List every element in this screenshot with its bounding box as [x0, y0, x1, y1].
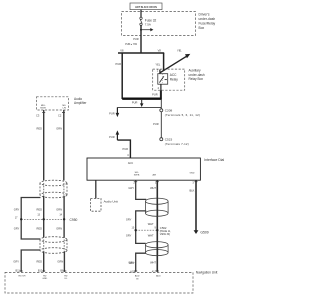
svg-text:GRY: GRY: [126, 217, 132, 221]
svg-text:V8: V8: [158, 49, 162, 53]
svg-text:(Terminals 5, 6, 11, 12): (Terminals 5, 6, 11, 12): [165, 113, 200, 117]
svg-text:GRY: GRY: [14, 207, 20, 211]
svg-text:WHT: WHT: [150, 186, 156, 190]
svg-text:GRN: GRN: [56, 126, 62, 130]
svg-text:C950: C950: [70, 218, 78, 222]
svg-text:Interface Dial: Interface Dial: [204, 158, 224, 162]
svg-text:Navigation Unit: Navigation Unit: [196, 270, 218, 274]
wire GRY shield lower segment: [136, 253, 146, 272]
navigation unit box (dashed): [5, 272, 193, 293]
nav pin B11: [16, 270, 26, 278]
svg-text:Driver's: Driver's: [199, 13, 210, 17]
label: Audio Amplifier: [74, 97, 87, 105]
connector C562 line: [135, 229, 159, 231]
hot-in-acc box: [130, 3, 162, 10]
shield cylinder right 2: [146, 242, 169, 256]
svg-text:GND: GND: [42, 278, 47, 280]
svg-text:B11: B11: [16, 270, 21, 273]
label C562: [160, 226, 171, 236]
svg-text:HOT IN ACC OR ON: HOT IN ACC OR ON: [135, 6, 157, 9]
wire RED mid: [43, 196, 45, 240]
wire GRY shield upper (interface pin2 to cyl top): [136, 180, 147, 199]
svg-text:SW/B: SW/B: [40, 108, 46, 110]
svg-text:SW/B: SW/B: [134, 175, 140, 177]
svg-text:GRN: GRN: [57, 260, 63, 264]
wire GRN lower: [63, 252, 65, 272]
connector stub arrow down: [140, 100, 144, 107]
wire GRN mid: [63, 196, 65, 240]
amp pin ticks: [42, 111, 65, 113]
svg-text:PUR: PUR: [116, 62, 122, 66]
label: Auxiliary Under-dash Relay Box: [189, 69, 205, 82]
svg-text:C3: C3: [36, 114, 40, 118]
ground G509: [194, 230, 209, 234]
svg-text:Y81: Y81: [177, 49, 182, 53]
wire right branch YEL down: [163, 53, 165, 71]
svg-text:AM: AM: [153, 174, 156, 177]
svg-text:YEL: YEL: [155, 62, 160, 66]
svg-text:PUR: PUR: [109, 112, 115, 116]
svg-text:GRY: GRY: [14, 227, 20, 231]
svg-text:GRN: GRN: [56, 227, 62, 231]
svg-text:RD: RD: [64, 275, 68, 277]
svg-text:WHT: WHT: [148, 222, 154, 226]
connector C523 reference: [160, 138, 163, 141]
svg-text:GRY: GRY: [126, 233, 132, 237]
amp pin label left: [40, 105, 46, 110]
junction wire horizontal: [118, 52, 164, 54]
svg-text:GRY: GRY: [13, 260, 19, 264]
svg-text:Box: Box: [199, 26, 205, 30]
svg-text:GRY: GRY: [129, 261, 135, 265]
wire thick feed: [122, 97, 161, 99]
relay U-ACC: [158, 74, 168, 85]
svg-text:PUR: PUR: [123, 147, 129, 151]
pin tick 3: [195, 181, 198, 183]
connector C208 reference rail: [160, 100, 163, 112]
wire thin rail horizontal: [117, 106, 161, 108]
svg-text:PUR: PUR: [132, 101, 138, 105]
wire to audio unit: [95, 180, 97, 198]
wire GRY shield bracket: [21, 198, 40, 240]
auxiliary under-dash relay box (dashed): [153, 69, 185, 90]
wire GRY shield to nav: [21, 250, 40, 272]
svg-text:Amplifier: Amplifier: [74, 101, 87, 105]
svg-text:A17: A17: [152, 270, 157, 273]
label C523: [165, 138, 189, 146]
svg-text:RED: RED: [37, 126, 43, 130]
nav pin A17: [152, 270, 161, 277]
svg-text:WHT: WHT: [148, 233, 154, 237]
svg-text:PUR: PUR: [109, 135, 115, 139]
svg-text:PUR: PUR: [153, 122, 159, 126]
svg-text:Audio Unit: Audio Unit: [104, 199, 118, 203]
audio amplifier box (dashed): [37, 97, 69, 110]
pin tick 2: [134, 181, 137, 183]
wire left branch PUR down: [121, 53, 123, 99]
wire relay out PUR: [160, 90, 162, 99]
wire from hot box to fuse: [140, 10, 142, 18]
interface dial unit box: [87, 158, 200, 180]
wire BLK to ground: [195, 180, 197, 231]
svg-text:C2: C2: [58, 114, 62, 118]
wire RED from amp: [43, 110, 45, 181]
svg-text:7.5A: 7.5A: [145, 23, 151, 27]
nav pin B6: [60, 270, 68, 281]
shield cylinder left 2 (dashed): [40, 237, 67, 254]
shield cylinder left 1 (dashed): [40, 180, 67, 198]
svg-text:RED: RED: [37, 207, 43, 211]
nav pin B12: [38, 270, 48, 281]
wire rail between circles PUR: [160, 112, 162, 138]
label: ACC Relay: [170, 73, 179, 81]
svg-text:RED: RED: [37, 227, 43, 231]
connector C950 line: [20, 218, 65, 220]
connector half arrow down at rail left: [116, 107, 120, 117]
svg-text:A19: A19: [130, 270, 135, 273]
wire fuse to junction (PUR): [140, 25, 142, 53]
driver's under-dash fuse/relay box (dashed): [122, 12, 196, 36]
wire WHT main (interface pin1 down): [156, 180, 158, 272]
svg-text:Relay: Relay: [170, 77, 179, 81]
label: Fuse 32 7.5A: [145, 18, 157, 26]
svg-text:AUD: AUD: [135, 275, 140, 278]
svg-text:AUD: AUD: [156, 275, 161, 278]
svg-text:RED: RED: [37, 260, 43, 264]
svg-text:BLK: BLK: [189, 189, 194, 193]
svg-text:L/N: L/N: [63, 108, 67, 110]
wire diagonal to arrow Y81: [160, 54, 190, 73]
svg-text:VIEW 30): VIEW 30): [160, 233, 170, 236]
svg-text:B12: B12: [38, 270, 43, 273]
wire RED lower: [43, 252, 45, 272]
svg-text:GRN: GRN: [56, 207, 62, 211]
label: Driver's under-dash Fuse/Relay Box: [199, 13, 216, 31]
svg-text:(Terminals 7-12): (Terminals 7-12): [165, 142, 189, 146]
wire GRY shield mid segment: [136, 211, 147, 244]
svg-text:SIG: SIG: [135, 172, 139, 174]
svg-text:PUR ▸ Y82: PUR ▸ Y82: [125, 43, 137, 46]
svg-text:GND: GND: [190, 173, 195, 175]
svg-text:RD: RD: [43, 275, 47, 277]
relay pin 1: [159, 70, 161, 74]
relay pin 4: [160, 84, 162, 90]
svg-text:GRY: GRY: [128, 186, 134, 190]
svg-text:Relay Box: Relay Box: [189, 77, 204, 81]
branch arrow inside fuse box: [140, 28, 153, 31]
svg-text:PUR: PUR: [152, 93, 158, 97]
wire elbow to interface pin 4: [117, 140, 130, 158]
pin tick 1: [156, 181, 159, 183]
fuse F32: [140, 17, 142, 25]
pin label SIG SW/B: [134, 172, 140, 177]
connector half arrow up: [116, 130, 120, 140]
svg-text:WHT: WHT: [150, 260, 156, 264]
nav pin A19: [130, 270, 140, 280]
svg-text:ACC: ACC: [128, 162, 133, 165]
shield cylinder right 1: [146, 198, 169, 216]
svg-text:V8: V8: [120, 49, 124, 53]
svg-text:under-dash: under-dash: [199, 17, 216, 21]
amp pin label right: [62, 105, 66, 110]
svg-text:RD SH: RD SH: [19, 276, 26, 278]
svg-text:PUR: PUR: [133, 37, 139, 41]
audio unit box (dashed): [91, 199, 102, 212]
label C208: [165, 109, 200, 117]
svg-text:G509: G509: [200, 231, 208, 235]
svg-text:Fuse/Relay: Fuse/Relay: [199, 22, 216, 26]
label: Navigation Unit: [196, 270, 218, 274]
svg-text:MILL: MILL: [41, 105, 47, 107]
wire GRN from amp: [63, 110, 65, 181]
